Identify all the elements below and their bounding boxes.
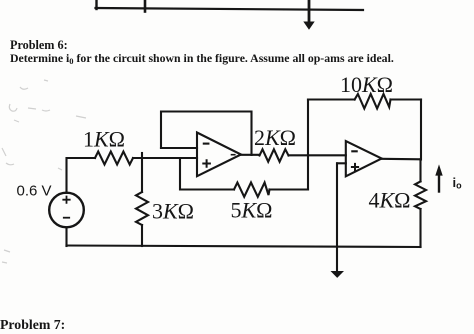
svg-text:0.6 V: 0.6 V [16,182,51,199]
svg-text:1KΩ: 1KΩ [83,126,125,151]
svg-text:5KΩ: 5KΩ [230,197,272,222]
svg-text:Problem 6:: Problem 6: [10,38,68,52]
svg-text:10KΩ: 10KΩ [340,72,393,97]
svg-text:3KΩ: 3KΩ [152,198,194,223]
svg-text:io: io [453,175,463,191]
svg-text:Determine i0 for the circuit s: Determine i0 for the circuit shown in th… [10,51,394,66]
svg-text:2KΩ: 2KΩ [254,125,296,150]
svg-text:4KΩ: 4KΩ [368,188,410,213]
svg-text:Problem 7:: Problem 7: [0,317,65,332]
